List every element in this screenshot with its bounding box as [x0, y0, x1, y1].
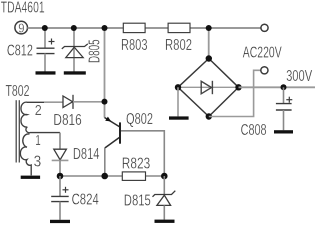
- capacitor C812: [37, 39, 55, 54]
- node bridge left: [175, 84, 181, 90]
- transformer T802 secondary winding (pins 1,3): [20, 134, 31, 175]
- node bridge bottom: [206, 113, 212, 119]
- ground bridge: [169, 116, 189, 119]
- wire pin1 to D814: [59, 133, 61, 149]
- node junction D814-C824: [57, 173, 64, 180]
- capacitor C824: [59, 176, 61, 196]
- node junction rail-collector: [102, 25, 108, 31]
- ground T802 pin3: [21, 176, 40, 179]
- ground D805: [64, 71, 86, 74]
- svg-text:TDA4601: TDA4601: [1, 0, 45, 17]
- pin 9 terminal of TDA4601: [15, 21, 28, 34]
- ground C824: [50, 220, 70, 223]
- ground D815: [155, 220, 175, 223]
- node junction base-D815: [161, 173, 168, 180]
- wire bridge bottom to AC terminal: [209, 70, 261, 116]
- svg-text:AC220V: AC220V: [243, 45, 282, 62]
- svg-text:T802: T802: [6, 83, 30, 100]
- terminal AC220V top: [261, 24, 268, 31]
- svg-text:2: 2: [35, 103, 42, 119]
- node bridge top: [206, 55, 212, 61]
- node junction C808: [281, 84, 287, 90]
- svg-text:1: 1: [35, 133, 41, 149]
- node junction rail-D805: [71, 25, 77, 31]
- resistor R823: [122, 172, 145, 181]
- terminal AC220V bottom: [261, 67, 268, 74]
- node junction D816-collector: [102, 99, 108, 105]
- wire D805 drop: [73, 28, 75, 72]
- svg-text:D815: D815: [124, 193, 151, 210]
- diode bridge inner: [201, 81, 212, 94]
- bridge rectifier diamond: [178, 59, 239, 117]
- resistor R803: [123, 23, 145, 32]
- node junction emitter-bus: [101, 173, 108, 180]
- transformer T802 core: [15, 100, 17, 162]
- transistor Q802: [105, 118, 120, 149]
- svg-text:D816: D816: [53, 112, 81, 129]
- wire top rail: [28, 27, 262, 29]
- svg-text:300V: 300V: [286, 68, 312, 85]
- svg-text:D805: D805: [87, 39, 104, 63]
- svg-text:C812: C812: [7, 43, 33, 60]
- svg-text:C824: C824: [72, 192, 99, 209]
- svg-text:R802: R802: [165, 37, 192, 54]
- transformer T802 primary winding (pin 2 top, tap): [21, 102, 60, 133]
- capacitor C808: [283, 87, 285, 103]
- wire C812 drop: [44, 28, 46, 48]
- ground C812: [36, 71, 56, 74]
- svg-text:Q802: Q802: [126, 111, 153, 128]
- node bridge right: [235, 84, 241, 90]
- wire bridge inner: [178, 86, 239, 88]
- diode D814: [54, 149, 67, 160]
- diode D816: [44, 101, 63, 103]
- svg-text:D814: D814: [73, 146, 100, 163]
- svg-text:3: 3: [34, 154, 42, 171]
- resistor R802: [168, 23, 190, 32]
- svg-text:R823: R823: [122, 156, 150, 173]
- wire bridge top link: [208, 28, 210, 59]
- wire 300V output: [239, 86, 316, 88]
- svg-text:9: 9: [18, 20, 24, 35]
- wire collector drop: [104, 28, 106, 118]
- node junction rail-bridge: [206, 25, 212, 31]
- wire bottom bus: [60, 175, 164, 177]
- wire bridge left to ground: [177, 87, 179, 116]
- node junction rail-C812: [42, 25, 48, 31]
- diode D815 (zener): [163, 176, 165, 195]
- svg-text:R803: R803: [121, 37, 148, 54]
- ground C808: [274, 130, 293, 133]
- diode D805 (zener): [62, 44, 88, 58]
- svg-text:C808: C808: [241, 122, 267, 139]
